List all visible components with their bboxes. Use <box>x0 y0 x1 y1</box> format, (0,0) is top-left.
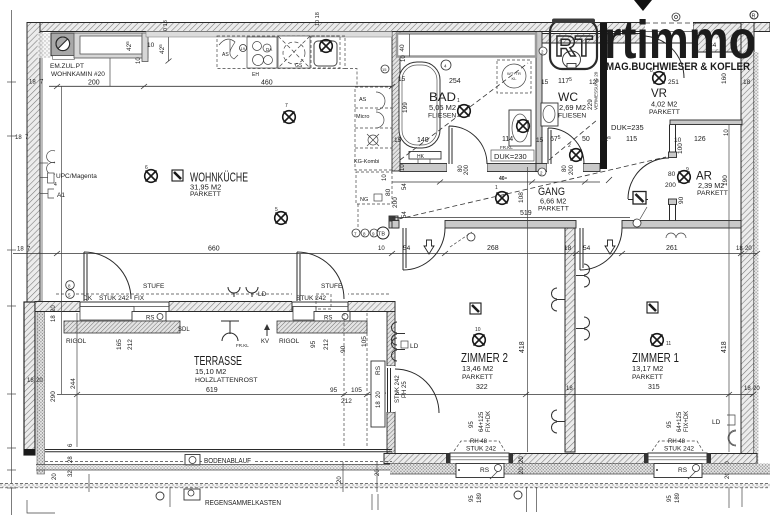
svg-text:10: 10 <box>136 57 142 64</box>
NG dashed box <box>356 172 392 204</box>
svg-text:RIGOL: RIGOL <box>279 338 300 345</box>
svg-text:40: 40 <box>399 44 406 52</box>
svg-text:5,05 M2: 5,05 M2 <box>429 103 456 112</box>
WC <box>539 47 547 55</box>
svg-text:15: 15 <box>541 79 549 86</box>
svg-text:KL: KL <box>512 76 518 81</box>
svg-text:Micro: Micro <box>356 114 369 120</box>
svg-text:18: 18 <box>744 386 751 392</box>
door arc kitchen->terrace 2 <box>296 252 298 301</box>
svg-text:244: 244 <box>70 378 77 389</box>
left wall bracket symbols <box>40 151 55 199</box>
wall gang south segment a <box>392 221 399 229</box>
texts kitchen <box>15 63 273 253</box>
svg-text:RIGOL: RIGOL <box>66 338 87 345</box>
kitchen counter top-left <box>74 33 148 58</box>
wall bad south left (grey) <box>400 164 447 172</box>
svg-text:18: 18 <box>29 80 36 86</box>
lamp kitchen 2 <box>283 111 296 124</box>
svg-text:FIX+DK: FIX+DK <box>486 411 492 432</box>
svg-text:FLIESEN: FLIESEN <box>428 113 456 120</box>
svg-text:WOHNKAMIN #20: WOHNKAMIN #20 <box>51 71 105 78</box>
svg-text:NG: NG <box>360 197 368 203</box>
terrace window/door 2 <box>292 288 348 312</box>
svg-text:DA: DA <box>266 47 272 52</box>
svg-text:199: 199 <box>402 102 409 113</box>
svg-text:ZIMMER 1: ZIMMER 1 <box>632 351 679 365</box>
svg-text:200: 200 <box>569 164 575 175</box>
lamp kitchen 3 <box>275 212 288 225</box>
svg-text:20: 20 <box>36 378 43 384</box>
svg-text:LD: LD <box>258 291 267 298</box>
wall top-right block (hatched) <box>693 23 742 52</box>
svg-text:10: 10 <box>475 327 481 333</box>
wall terrace west bottom cap <box>24 449 35 455</box>
washbasin bad <box>509 110 531 146</box>
lamp bad 2 <box>517 120 530 133</box>
wall wc south left (grey) <box>536 164 547 172</box>
svg-text:TERRASSE: TERRASSE <box>194 354 242 368</box>
svg-text:20: 20 <box>52 473 58 480</box>
svg-text:15: 15 <box>394 137 402 144</box>
svg-text:2,39 M2: 2,39 M2 <box>698 181 724 190</box>
window zimmer2 <box>446 445 513 464</box>
svg-text:10 18: 10 18 <box>315 12 321 26</box>
wall inner finish strip <box>146 32 392 38</box>
svg-text:20: 20 <box>753 386 760 392</box>
svg-text:10: 10 <box>401 55 407 62</box>
svg-text:114: 114 <box>502 136 513 143</box>
svg-text:105: 105 <box>351 387 362 394</box>
wire left border line <box>7 10 16 515</box>
door terrace->zimmer2 <box>386 366 395 412</box>
svg-text:95: 95 <box>667 495 673 502</box>
wall bad/wc (grey) <box>536 32 542 172</box>
svg-text:A1: A1 <box>57 192 65 199</box>
svg-text:189: 189 <box>675 492 681 503</box>
svg-text:660: 660 <box>208 246 220 253</box>
entrance door opening in top wall <box>645 22 693 43</box>
svg-text:20: 20 <box>519 456 525 463</box>
svg-text:95: 95 <box>469 421 475 428</box>
swing arrows <box>424 240 434 254</box>
wall kitchen-east / bad-west (grey) <box>392 32 400 172</box>
rigol strips <box>64 321 180 333</box>
svg-text:18: 18 <box>376 401 382 408</box>
svg-text:261: 261 <box>666 245 678 252</box>
RS boxes redraw over band <box>456 456 702 479</box>
svg-text:4,02 M2: 4,02 M2 <box>651 100 677 109</box>
svg-text:10: 10 <box>382 174 388 181</box>
svg-text:TB: TB <box>378 232 385 238</box>
bottom bands <box>36 465 390 471</box>
svg-text:519: 519 <box>520 210 532 217</box>
svg-text:54: 54 <box>403 245 411 252</box>
wall zimmer2-west upper (hatched) <box>387 312 395 367</box>
svg-text:18: 18 <box>743 79 751 86</box>
svg-text:54: 54 <box>402 211 408 218</box>
curtain arcs near 261 <box>666 233 686 238</box>
svg-text:RT: RT <box>555 31 593 63</box>
appliance row dashed box <box>217 36 345 69</box>
svg-text:90: 90 <box>678 196 685 204</box>
svg-text:PH 25: PH 25 <box>402 381 408 398</box>
svg-text:UPC/Magenta: UPC/Magenta <box>56 173 97 180</box>
svg-text:11: 11 <box>666 341 671 347</box>
wall vr/ar (grey) <box>670 120 742 125</box>
wall bad south right (grey) <box>487 164 536 172</box>
svg-text:20: 20 <box>51 305 57 312</box>
wc toilet <box>563 51 581 68</box>
svg-text:20: 20 <box>337 476 343 483</box>
svg-text:RS: RS <box>678 467 688 474</box>
terrace window/door 1 <box>80 288 169 312</box>
svg-text:254: 254 <box>449 78 461 85</box>
svg-text:10: 10 <box>674 137 682 144</box>
svg-text:10: 10 <box>147 42 155 49</box>
svg-text:229: 229 <box>587 99 594 110</box>
svg-text:RH 48: RH 48 <box>470 439 488 445</box>
svg-text:HOLZLATTENROST: HOLZLATTENROST <box>195 377 258 384</box>
bathtub <box>399 62 440 148</box>
svg-text:FIX+DK: FIX+DK <box>684 411 690 432</box>
entrance door arc <box>642 36 684 78</box>
door zimmer2 <box>402 228 404 270</box>
svg-text:STUK 242: STUK 242 <box>99 295 129 302</box>
svg-text:MAG.BUCHWIESER & KOFLER: MAG.BUCHWIESER & KOFLER <box>606 61 750 73</box>
svg-text:95: 95 <box>469 495 475 502</box>
circled nums left wall <box>66 281 75 290</box>
svg-text:165: 165 <box>116 339 123 350</box>
svg-text:160: 160 <box>721 73 728 84</box>
svg-text:EM.ZUL.PT: EM.ZUL.PT <box>50 63 84 70</box>
dim vertical zimmer1 x729 <box>728 124 730 452</box>
regen row <box>156 492 164 500</box>
wall top exterior (hatched) <box>27 23 770 32</box>
wall wc south right (grey) <box>583 164 600 172</box>
wall partition zimmer1/zimmer2 (hatched) <box>565 228 575 452</box>
circles 7 8 9 TB <box>352 229 360 237</box>
svg-text:115: 115 <box>626 136 637 143</box>
svg-text:1: 1 <box>495 185 498 191</box>
door arc kitchen->terrace 1 <box>83 252 85 301</box>
svg-text:251: 251 <box>668 79 679 86</box>
svg-text:PARKETT: PARKETT <box>649 109 680 116</box>
svg-text:7: 7 <box>285 103 288 109</box>
svg-text:PARKETT: PARKETT <box>632 374 663 381</box>
svg-text:AS: AS <box>359 97 367 103</box>
logo icon box <box>550 20 597 69</box>
svg-text:GS: GS <box>295 63 303 69</box>
svg-text:LD: LD <box>410 343 419 350</box>
svg-text:19: 19 <box>241 46 246 51</box>
svg-text:STUK 242: STUK 242 <box>664 446 694 453</box>
fridge box with lamp <box>311 36 340 68</box>
svg-text:32: 32 <box>68 470 74 477</box>
wall bottom zimmer (hatched) <box>384 454 757 464</box>
svg-text:200: 200 <box>464 164 470 175</box>
svg-text:HK: HK <box>417 154 425 160</box>
svg-text:PARKETT: PARKETT <box>462 374 493 381</box>
svg-text:STUFE: STUFE <box>321 283 343 290</box>
svg-text:FR.KL: FR.KL <box>500 145 513 150</box>
svg-text:VR: VR <box>651 86 667 100</box>
svg-text:418: 418 <box>519 341 526 353</box>
svg-text:18: 18 <box>17 247 24 253</box>
svg-text:619: 619 <box>206 387 218 394</box>
svg-text:290: 290 <box>50 391 57 402</box>
svg-text:15: 15 <box>382 67 387 72</box>
circled nums near doors <box>467 233 475 241</box>
svg-text:18: 18 <box>566 386 573 392</box>
svg-text:6: 6 <box>145 165 148 171</box>
svg-text:RS: RS <box>480 467 490 474</box>
lamp bad <box>458 105 471 118</box>
svg-text:200: 200 <box>392 197 399 208</box>
svg-text:90: 90 <box>340 345 347 353</box>
sink tap <box>219 39 238 59</box>
svg-text:80: 80 <box>668 171 676 178</box>
svg-text:STUK 242: STUK 242 <box>395 375 401 403</box>
svg-text:80: 80 <box>385 188 392 196</box>
svg-text:20: 20 <box>519 467 525 474</box>
terrace bottom <box>45 449 392 451</box>
dimension line top (kitchen) <box>49 84 395 89</box>
electrical panel <box>633 192 646 205</box>
wall terrace west insulation (dotted) <box>37 302 45 474</box>
svg-text:126: 126 <box>694 136 706 143</box>
wall vr north inner band (hatched) <box>536 34 645 44</box>
HK radiator <box>409 152 441 160</box>
svg-text:DUK=230: DUK=230 <box>494 152 527 161</box>
north arrow <box>634 0 652 11</box>
svg-text:10: 10 <box>400 164 406 171</box>
svg-text:100: 100 <box>677 143 684 154</box>
svg-text:STUK 242: STUK 242 <box>466 446 496 453</box>
radiator brackets partition <box>552 288 566 311</box>
zimmer2 west annotations <box>392 322 406 345</box>
svg-text:10: 10 <box>378 246 385 252</box>
svg-text:FLIESEN: FLIESEN <box>558 113 586 120</box>
svg-text:460: 460 <box>261 80 273 87</box>
cooktop EH <box>247 37 277 68</box>
svg-text:9: 9 <box>686 167 689 173</box>
svg-text:20: 20 <box>745 246 752 252</box>
svg-text:PARKETT: PARKETT <box>190 191 221 198</box>
svg-text:ZIMMER 2: ZIMMER 2 <box>461 351 508 365</box>
svg-text:SDL: SDL <box>178 327 190 333</box>
svg-text:18: 18 <box>51 315 57 322</box>
wall right exterior (hatched) <box>741 23 754 464</box>
svg-text:418: 418 <box>721 341 728 353</box>
svg-text:64+125: 64+125 <box>677 411 683 432</box>
svg-text:1: 1 <box>457 98 460 104</box>
svg-text:4: 4 <box>54 182 57 188</box>
svg-text:PARKETT: PARKETT <box>538 206 569 213</box>
room label WOHNKUECHE <box>172 170 183 181</box>
svg-text:268: 268 <box>487 245 499 252</box>
svg-text:18: 18 <box>27 378 34 384</box>
svg-text:20: 20 <box>375 469 381 476</box>
zimmer1 LD <box>727 415 735 425</box>
svg-text:18: 18 <box>15 135 22 141</box>
svg-text:RH 48: RH 48 <box>668 439 686 445</box>
svg-text:200: 200 <box>665 182 676 189</box>
svg-text:2,69 M2: 2,69 M2 <box>559 103 586 112</box>
dim vertical kitchen x110 <box>109 55 111 86</box>
svg-text:18: 18 <box>564 245 572 252</box>
svg-text:10: 10 <box>724 129 730 136</box>
svg-text:20: 20 <box>376 391 382 398</box>
svg-text:54: 54 <box>402 183 408 190</box>
door wc <box>547 163 583 172</box>
door bad <box>447 163 487 172</box>
svg-text:54: 54 <box>583 245 591 252</box>
svg-text:200: 200 <box>88 80 100 87</box>
svg-text:6,66 M2: 6,66 M2 <box>540 197 566 206</box>
svg-text:80: 80 <box>562 165 568 172</box>
wall terrace west outer (hatched) <box>24 302 35 455</box>
ZIMMER 1 <box>647 302 658 313</box>
ceiling lamps LD terrace <box>228 287 258 297</box>
svg-text:40⁴: 40⁴ <box>499 176 508 182</box>
dimension line zimmer y394.5 <box>392 392 756 397</box>
dim vertical zimmer2 x526 <box>527 167 529 452</box>
wc washbasin <box>541 103 558 126</box>
svg-text:190: 190 <box>722 175 729 186</box>
svg-text:WC: WC <box>558 90 578 104</box>
svg-text:13,17 M2: 13,17 M2 <box>632 364 663 373</box>
chimney box <box>38 33 52 58</box>
svg-text:DUK=235: DUK=235 <box>611 123 644 132</box>
svg-text:R: R <box>752 14 756 20</box>
door ar arc <box>628 158 669 199</box>
wall gang south segment b <box>445 221 576 229</box>
svg-text:64+125: 64+125 <box>479 411 485 432</box>
svg-text:STUK 242: STUK 242 <box>296 295 326 302</box>
svg-text:REGENSAMMELKASTEN: REGENSAMMELKASTEN <box>205 500 281 507</box>
svg-text:BODENABLAUF: BODENABLAUF <box>204 458 251 465</box>
wall gang south segment c <box>622 221 741 229</box>
svg-text:212: 212 <box>341 398 352 405</box>
ventilation dashed diagonals <box>390 157 666 221</box>
table symbol <box>221 320 239 322</box>
RS tall box right <box>371 361 385 427</box>
wall terrace/livingroom (hatched) <box>35 302 395 312</box>
lamp kitchen 1 <box>145 170 158 183</box>
svg-text:95: 95 <box>310 340 317 348</box>
wall zimmer2-west lower (hatched) <box>387 412 395 454</box>
svg-text:KV: KV <box>261 339 269 345</box>
svg-text:EH: EH <box>252 72 259 78</box>
lamp wc <box>570 149 583 162</box>
wall stub below kitchen door <box>389 216 398 228</box>
svg-text:15: 15 <box>398 76 406 83</box>
svg-text:PARKETT: PARKETT <box>697 190 728 197</box>
svg-text:BAD: BAD <box>429 90 456 104</box>
svg-text:95: 95 <box>667 421 673 428</box>
svg-text:13,46 M2: 13,46 M2 <box>462 364 493 373</box>
washing machine dashed <box>497 60 531 93</box>
svg-text:108: 108 <box>518 192 525 203</box>
dimension line terrace y394.5 <box>74 392 387 397</box>
svg-text:15: 15 <box>536 137 544 144</box>
svg-text:5: 5 <box>275 207 278 213</box>
svg-text:212: 212 <box>323 339 330 350</box>
dimension line kitchen 660 <box>13 251 760 256</box>
shaft above bathroom <box>397 34 536 57</box>
LOGO artimmo <box>550 10 758 73</box>
svg-text:FR.KL: FR.KL <box>236 343 249 348</box>
svg-text:95: 95 <box>330 387 338 394</box>
svg-text:LD: LD <box>712 419 721 426</box>
svg-text:50: 50 <box>582 136 590 143</box>
svg-text:KG-Kombi: KG-Kombi <box>354 159 379 165</box>
svg-text:STUFE: STUFE <box>143 283 165 290</box>
svg-text:18: 18 <box>736 246 743 252</box>
window zimmer1 <box>644 445 711 464</box>
GANG door dim line <box>392 181 600 183</box>
svg-text:212: 212 <box>127 339 134 350</box>
svg-text:RS: RS <box>375 365 382 375</box>
svg-text:322: 322 <box>476 384 488 391</box>
door zimmer1 <box>579 228 581 270</box>
ZIMMER 2 <box>470 303 481 314</box>
svg-text:315: 315 <box>648 384 660 391</box>
svg-text:189: 189 <box>477 492 483 503</box>
wall ar west upper (thin) <box>670 125 676 221</box>
dishwasher GS crossed box <box>278 36 310 68</box>
svg-text:AS: AS <box>222 52 229 58</box>
svg-text:FIX: FIX <box>134 295 145 302</box>
wall left exterior (hatched) <box>27 23 40 303</box>
kitchen right tall units dashed <box>355 87 392 170</box>
svg-text:15,10 M2: 15,10 M2 <box>195 367 226 376</box>
svg-text:28: 28 <box>68 456 74 463</box>
